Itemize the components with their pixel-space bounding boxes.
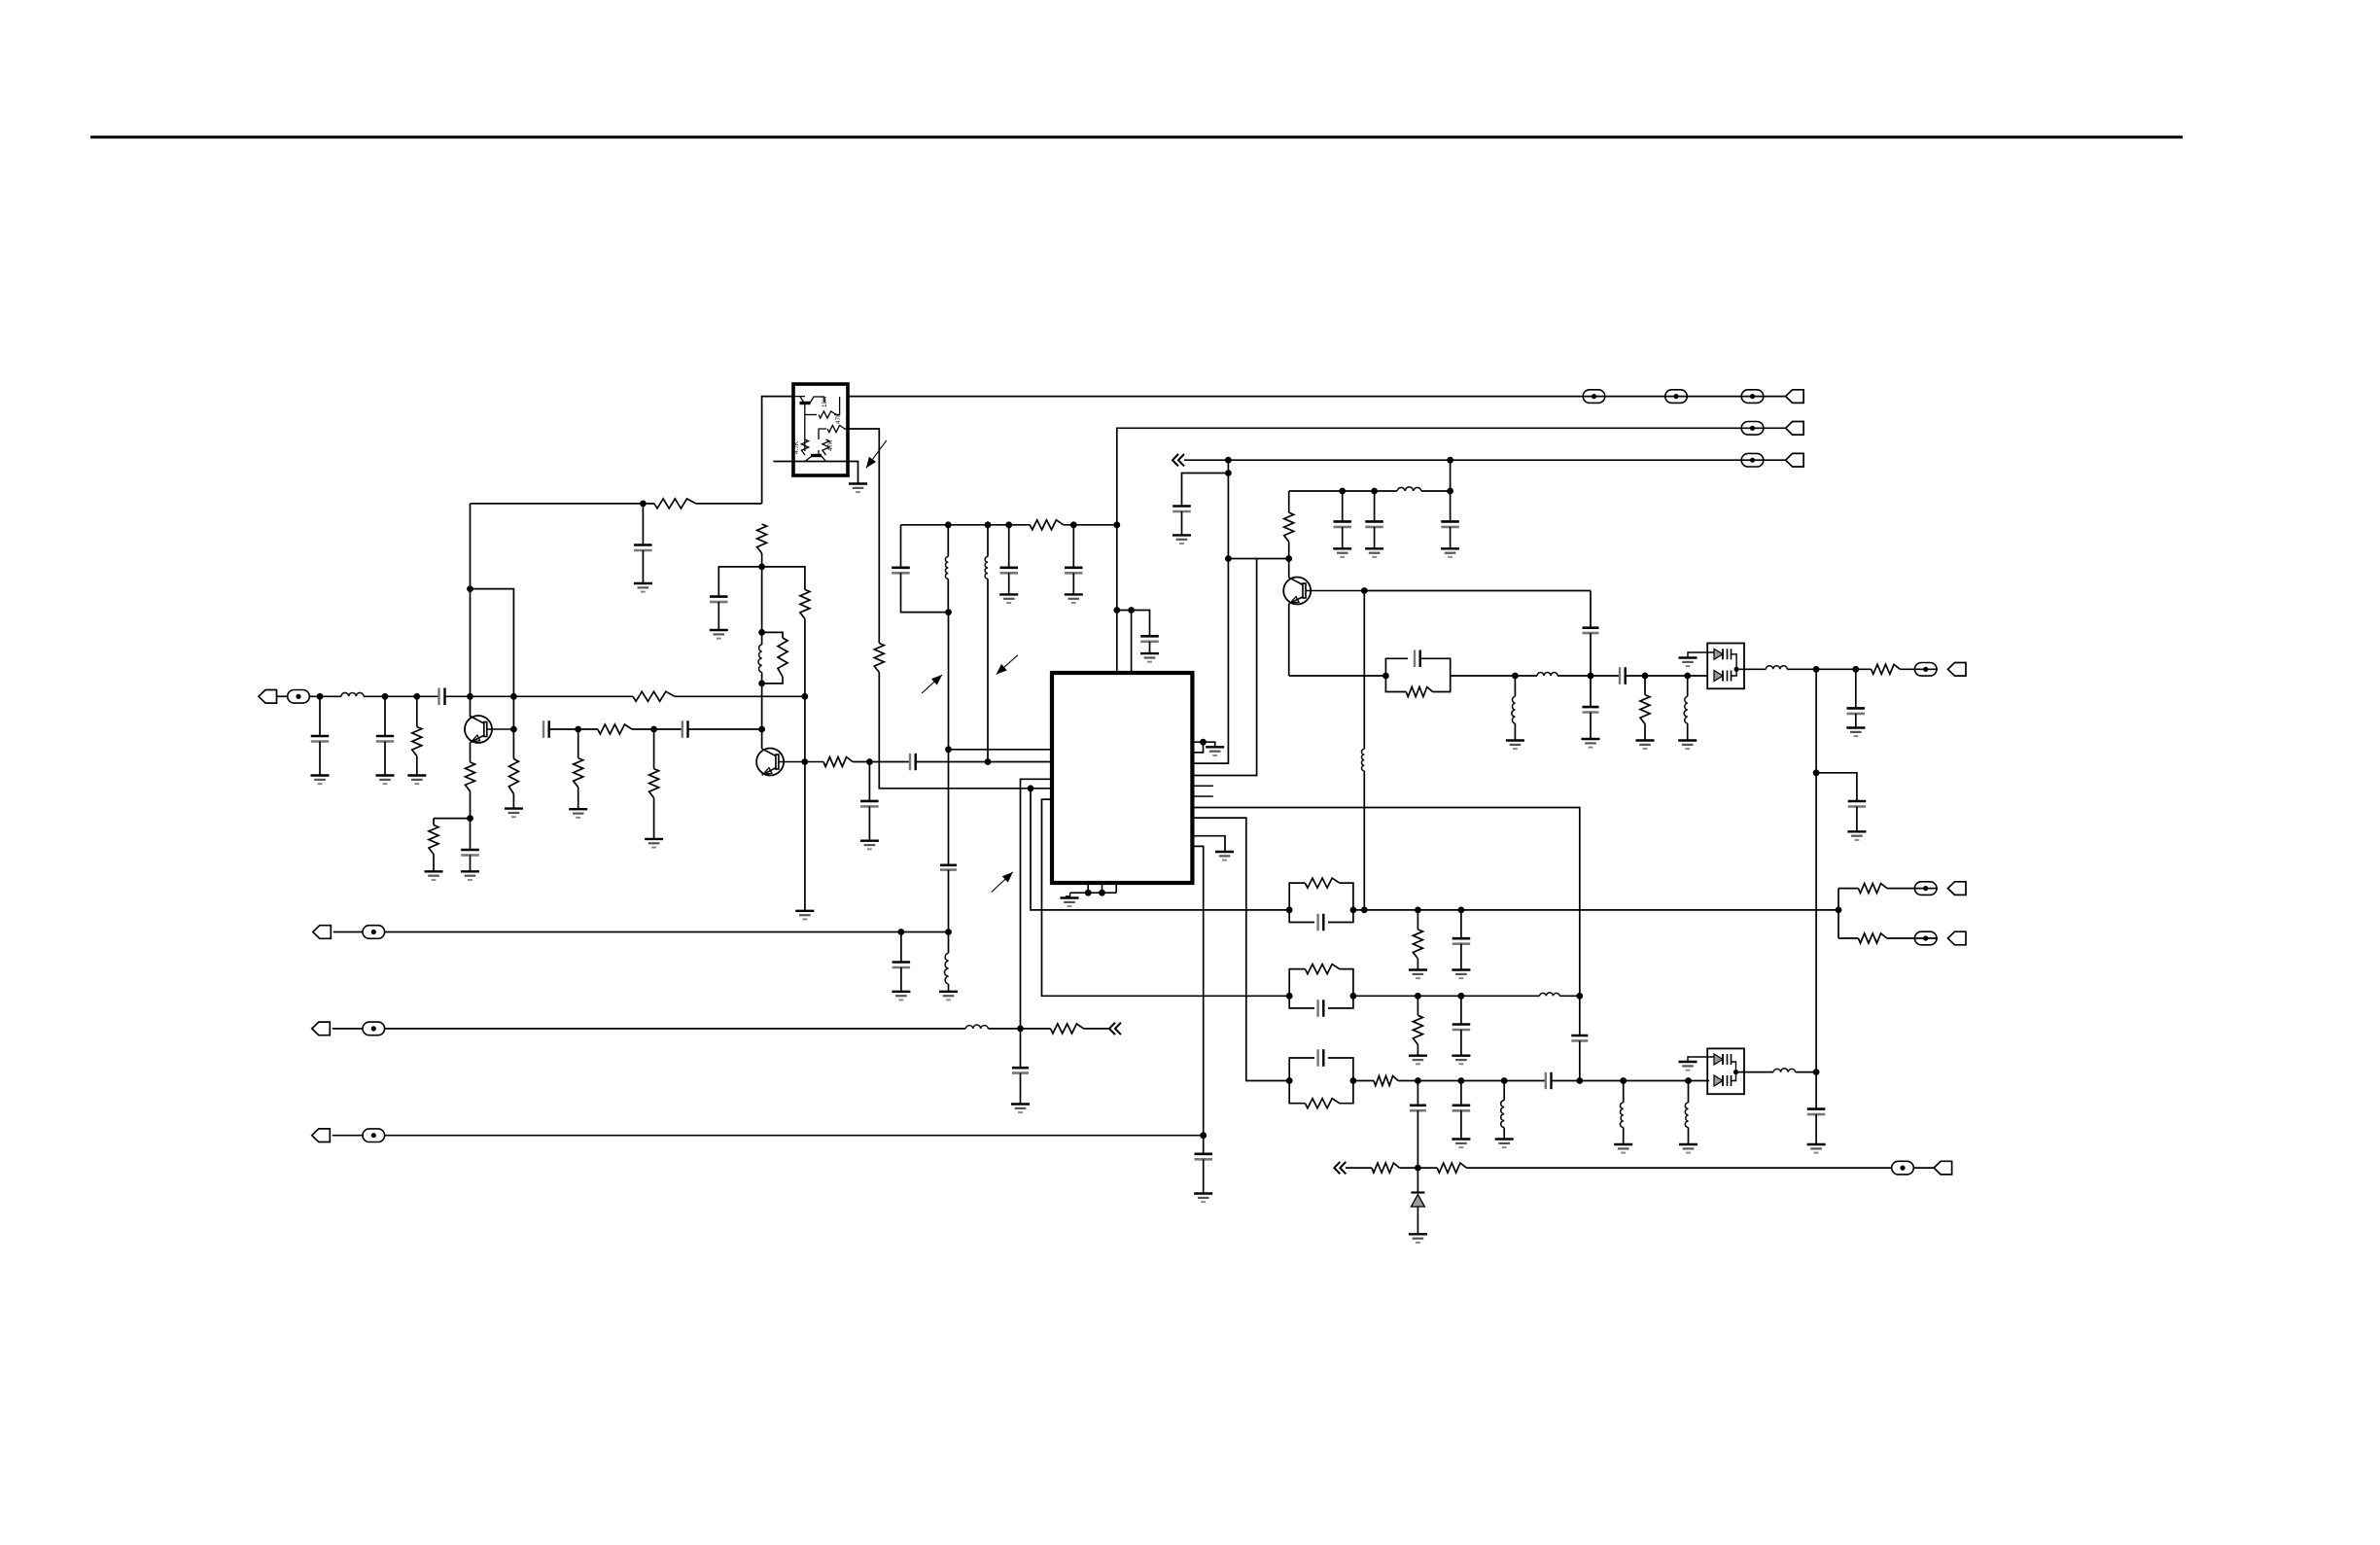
test point TP1	[288, 690, 310, 704]
diode D3 (to ground)	[1411, 1168, 1424, 1234]
wire (row1 feed)	[1031, 789, 1289, 910]
wire	[1450, 527, 1452, 548]
junction	[758, 726, 765, 733]
ground	[860, 841, 879, 850]
test point TP3	[1665, 390, 1688, 404]
wire	[901, 573, 949, 612]
capacitor C25 (series)	[1583, 628, 1599, 633]
junction	[1017, 1026, 1024, 1033]
wire bus	[901, 524, 1031, 526]
label 47K b	[827, 439, 834, 451]
junction	[945, 521, 952, 528]
junction	[1813, 1069, 1820, 1075]
wire	[987, 525, 989, 557]
wire	[804, 618, 806, 910]
junction	[413, 693, 420, 700]
resistor R7	[429, 825, 438, 855]
inductor L5	[945, 953, 949, 984]
capacitor C9 (series)	[682, 720, 688, 738]
junction	[1836, 907, 1842, 914]
junction	[1085, 890, 1092, 896]
junction	[1200, 1132, 1207, 1139]
wire (collector sub-rail)	[1289, 490, 1343, 492]
capacitor C32 (series)	[1571, 1036, 1588, 1040]
wire (IC pin to row3)	[1192, 818, 1289, 1080]
wire (IC pin)	[1192, 846, 1203, 1153]
wire	[653, 798, 655, 839]
wire	[688, 728, 762, 730]
test point TP4	[1741, 390, 1764, 404]
test point TP9	[363, 1129, 385, 1142]
ground	[1582, 739, 1600, 748]
junction	[640, 501, 647, 508]
junction	[1285, 555, 1292, 562]
resistor (module) 4.7K	[801, 439, 808, 455]
junction	[985, 521, 992, 528]
wire	[1787, 668, 1871, 670]
wire	[1796, 1071, 1816, 1073]
junction	[1415, 1165, 1421, 1172]
wire	[1020, 1073, 1022, 1105]
connector J11	[1934, 1161, 1952, 1175]
resistor (module) 10K	[819, 411, 836, 418]
wire	[319, 696, 321, 736]
wire (jog to C5)	[718, 567, 761, 597]
wire	[1644, 676, 1646, 695]
wire	[1460, 1081, 1462, 1106]
inductor L15	[1621, 1103, 1624, 1128]
inductor L13	[1540, 993, 1560, 997]
wire (bus left drop)	[900, 525, 902, 568]
ground	[425, 871, 443, 880]
ground	[1011, 1105, 1030, 1113]
wire	[1451, 675, 1516, 677]
junction	[1339, 488, 1346, 495]
wire	[513, 695, 633, 697]
diode D2b	[1714, 1075, 1732, 1086]
wire	[416, 696, 418, 726]
wire	[1552, 1080, 1710, 1082]
resistor R23	[1413, 1015, 1422, 1044]
wire	[1149, 642, 1151, 653]
junction	[1852, 666, 1859, 673]
junction	[1286, 993, 1293, 1000]
wire	[577, 788, 579, 810]
diode D1b	[1714, 671, 1732, 682]
wire	[1342, 491, 1344, 521]
capacitor C24	[1365, 521, 1383, 527]
junction	[1512, 673, 1519, 680]
inductor L3	[945, 557, 948, 579]
resistor R6 (Q1 emitter)	[466, 762, 475, 791]
junction	[1350, 907, 1357, 914]
junction	[1642, 673, 1649, 680]
capacitor C16 (series)	[940, 865, 957, 870]
capacitor C17	[892, 963, 911, 968]
wire (Q1 emitter)	[470, 743, 472, 762]
wire (bottom tie)	[1070, 892, 1117, 894]
wire (D2 out)	[1736, 1071, 1774, 1073]
wire	[416, 756, 418, 776]
wire	[1815, 1072, 1817, 1109]
resistor R17 (Q3 collector)	[1284, 512, 1294, 542]
diode D2a	[1714, 1054, 1732, 1065]
connector J5	[313, 926, 332, 939]
wire	[1417, 959, 1418, 970]
test point TP2	[1583, 390, 1605, 404]
resistor R13 (Q2 base)	[823, 757, 853, 767]
ground	[1441, 548, 1459, 557]
wire	[577, 729, 579, 758]
wire	[868, 806, 870, 840]
test point TP11	[1914, 882, 1937, 895]
wire	[1374, 491, 1376, 521]
svg-text:47K: 47K	[835, 412, 842, 424]
wire (drop to IC)	[1192, 559, 1256, 776]
wire	[1460, 996, 1462, 1024]
wire (IC pin)	[1192, 741, 1203, 743]
capacitor C3 (series)	[439, 688, 445, 706]
wire	[1342, 527, 1344, 548]
wire (IC pin)	[1192, 836, 1225, 852]
wire	[1182, 474, 1229, 507]
capacitor C12	[860, 801, 879, 807]
resistor R20	[1413, 930, 1422, 959]
junction	[1813, 666, 1820, 673]
ground	[461, 871, 479, 880]
inductor L14	[1501, 1101, 1504, 1128]
junction	[801, 758, 808, 765]
junction	[1113, 521, 1120, 528]
ground	[376, 776, 395, 785]
junction	[758, 629, 765, 636]
ground	[710, 630, 728, 639]
ground	[1333, 548, 1351, 557]
wire	[1072, 525, 1074, 568]
wire	[445, 695, 514, 697]
junction	[1225, 555, 1232, 562]
resistor R3 (bias chain)	[757, 524, 767, 553]
resistor R24	[1374, 1076, 1398, 1086]
wire	[1503, 1128, 1505, 1140]
wire	[433, 855, 435, 872]
label 10K	[822, 396, 828, 407]
ground	[634, 583, 652, 592]
wire	[1887, 937, 1938, 939]
ic U1 (main IC)	[1052, 673, 1192, 883]
wire	[947, 579, 949, 612]
ground	[1679, 658, 1697, 667]
wire	[853, 761, 910, 763]
wire	[1623, 1128, 1625, 1145]
connector J4	[1786, 453, 1804, 467]
junction	[1099, 890, 1105, 896]
wire	[1855, 714, 1857, 728]
resistor (module) 47K a	[827, 425, 845, 432]
capacitor C31	[1452, 1025, 1471, 1031]
wire (Q3 emitter)	[1288, 604, 1290, 676]
wire	[761, 632, 763, 645]
junction	[1813, 769, 1820, 776]
capacitor C23	[1334, 521, 1352, 527]
transistor Q3	[1283, 578, 1311, 605]
wire	[1008, 573, 1010, 594]
chevron (off-page)	[1109, 1023, 1121, 1035]
resistor R2 (feedback)	[654, 499, 696, 509]
junction	[1458, 907, 1465, 914]
wire (IC bottom pins)	[1088, 883, 1116, 893]
capacitor C21	[1195, 1154, 1213, 1160]
ground	[1215, 852, 1234, 860]
connector J7	[312, 1129, 331, 1142]
wire	[1417, 1044, 1418, 1055]
junction	[1501, 1077, 1508, 1084]
wire	[879, 673, 1052, 789]
junction	[1576, 993, 1583, 1000]
wire	[1815, 1114, 1817, 1144]
junction	[467, 693, 473, 700]
capacitor C2 (shunt)	[376, 736, 394, 742]
junction	[1415, 993, 1421, 1000]
ground	[1452, 1056, 1470, 1065]
ground	[1206, 747, 1224, 755]
junction	[945, 746, 952, 753]
capacitor C7 (emitter bypass)	[461, 850, 479, 856]
chevron (off-page) left	[1172, 454, 1184, 466]
wire	[1623, 1081, 1625, 1104]
ground	[1061, 898, 1079, 907]
ground	[1679, 1144, 1697, 1153]
capacitor C22	[1441, 521, 1459, 527]
wire	[1460, 1030, 1462, 1056]
wire	[632, 728, 682, 730]
capacitor C20	[1172, 507, 1191, 512]
wire	[1688, 1081, 1690, 1104]
capacitor C1 (shunt)	[311, 736, 329, 742]
wire	[471, 589, 514, 759]
ground	[1365, 548, 1383, 557]
wire rail 2	[1117, 428, 1786, 525]
wire	[1289, 675, 1386, 677]
wire (to bias module)	[762, 397, 793, 504]
wire	[1559, 995, 1580, 997]
wire	[1626, 675, 1708, 677]
inductor L2 (parallel)	[758, 645, 762, 673]
wire	[384, 696, 386, 736]
wire	[948, 613, 950, 865]
resistor (module) 47K b	[822, 439, 829, 455]
resistor R15 (bus)	[1030, 520, 1064, 530]
junction	[1350, 993, 1357, 1000]
junction	[1200, 739, 1207, 746]
junction	[382, 693, 389, 700]
wire rail 3	[1184, 459, 1786, 461]
capacitor C15	[1065, 568, 1083, 574]
wire (IC top pin 1)	[1116, 525, 1118, 673]
wire	[1460, 944, 1462, 970]
capacitor C27 (series)	[1620, 667, 1626, 685]
wire	[1008, 525, 1010, 568]
wire	[1066, 893, 1070, 896]
resistor R16	[1051, 1024, 1084, 1034]
wire	[916, 761, 1052, 763]
wire (IC pin to row2 col)	[1192, 808, 1579, 997]
diode D1a	[1714, 649, 1732, 659]
wire	[1417, 1081, 1418, 1106]
junction node A	[317, 693, 324, 700]
junction	[1128, 607, 1135, 614]
resistor R5 (on input rail)	[633, 691, 675, 701]
wire (D1 internal)	[1732, 654, 1737, 676]
wire	[900, 967, 902, 992]
test point TP13	[1892, 1161, 1914, 1175]
wire (row B)	[1838, 937, 1858, 939]
wire	[1181, 511, 1183, 535]
resistor R14	[874, 644, 884, 673]
ground	[569, 809, 587, 818]
junction	[1734, 667, 1739, 672]
wire	[1514, 723, 1516, 741]
wire	[900, 932, 902, 963]
capacitor C13	[892, 568, 910, 574]
capacitor C8 (series)	[543, 720, 549, 738]
junction	[1286, 1077, 1293, 1084]
capacitor C36	[1807, 1109, 1826, 1115]
ground	[849, 484, 867, 493]
wire	[653, 729, 655, 769]
wire	[642, 504, 644, 545]
capacitor C29	[1848, 801, 1867, 807]
wire (module internal)	[805, 397, 840, 415]
resistor R10	[574, 758, 583, 788]
wire	[1887, 888, 1938, 890]
wire	[1353, 909, 1838, 911]
inductor L12	[1766, 666, 1787, 670]
wire	[364, 695, 439, 697]
junction	[1576, 1077, 1583, 1084]
wire	[696, 503, 762, 505]
inductor L16	[1685, 1103, 1688, 1128]
sub-circuit U2 (bias module box)	[793, 384, 848, 475]
transistor Q1	[465, 716, 492, 743]
wire	[1417, 996, 1418, 1015]
junction	[1070, 521, 1077, 528]
junction	[1733, 1070, 1738, 1074]
resistor R8 (base bias)	[508, 759, 518, 794]
capacitor C35	[1452, 1106, 1471, 1111]
transistor Q2	[756, 749, 784, 776]
wire (Q3 base lead)	[1306, 590, 1364, 592]
wire	[948, 870, 950, 954]
junction	[1415, 1077, 1421, 1084]
wire	[512, 794, 514, 809]
wire	[1900, 668, 1938, 670]
wire (IC pin to row2)	[1042, 799, 1290, 996]
wire	[1072, 573, 1074, 594]
wire (D1 out)	[1736, 668, 1766, 670]
wire	[1288, 491, 1290, 512]
wire	[947, 525, 949, 557]
wire	[1579, 1040, 1581, 1080]
transistor Q5 (in module)	[805, 450, 826, 462]
wire (D1 gnd stub)	[1688, 652, 1714, 658]
ground	[645, 839, 663, 848]
wire (IC top pin 2)	[1131, 611, 1133, 674]
ground	[1846, 728, 1865, 737]
wire	[385, 1028, 966, 1030]
resistor R1 (shunt)	[412, 727, 422, 756]
connector J6	[312, 1022, 331, 1036]
resistor R4	[800, 589, 810, 618]
wire	[987, 579, 989, 761]
tuning arrow 1	[922, 675, 942, 693]
wire	[1353, 995, 1540, 997]
ground	[999, 594, 1018, 603]
wire	[470, 791, 472, 850]
wire	[1687, 723, 1689, 741]
wire	[761, 672, 763, 749]
resistor R12 (parallel w/ L2)	[762, 632, 787, 684]
ground	[1409, 1056, 1427, 1065]
junction	[1225, 457, 1232, 464]
svg-text:4.7K: 4.7K	[793, 440, 800, 454]
inductor L4	[985, 557, 988, 579]
ground	[505, 809, 523, 818]
wire	[1466, 1167, 1891, 1169]
ground	[1807, 1144, 1826, 1153]
wire (Q1 base lead)	[487, 728, 513, 730]
wire (base line)	[1364, 590, 1591, 592]
test point TP6	[1741, 453, 1764, 467]
junction	[1588, 673, 1594, 680]
wire (row A)	[1838, 888, 1858, 890]
capacitor C26	[1583, 707, 1599, 712]
junction	[1620, 1077, 1627, 1084]
resistor R9 (interstage)	[598, 724, 632, 734]
capacitor C14	[1000, 568, 1019, 574]
capacitor C4	[634, 545, 652, 551]
wire	[988, 1028, 1050, 1030]
junction	[1685, 1077, 1692, 1084]
wire	[1855, 669, 1857, 708]
junction	[801, 693, 808, 700]
capacitor C19 (series)	[1012, 1068, 1029, 1072]
wire	[868, 762, 870, 801]
resistor R11	[649, 769, 659, 798]
parallel RC box row2	[1289, 965, 1353, 1017]
test point TP7	[363, 926, 385, 939]
ground	[311, 776, 330, 785]
wire	[319, 742, 321, 776]
wire	[1688, 1128, 1690, 1145]
transistor Q4 (in module)	[794, 397, 825, 451]
resistor R22	[1858, 933, 1887, 943]
junction	[467, 585, 473, 592]
wire	[1204, 742, 1215, 747]
resistor R18	[1640, 695, 1650, 724]
wire	[1816, 773, 1857, 801]
svg-text:10K: 10K	[822, 396, 828, 407]
wire (Q1 collector feed)	[470, 504, 472, 718]
wire	[1590, 676, 1592, 707]
ground	[1140, 653, 1159, 662]
resistor R21	[1858, 884, 1887, 894]
junction	[467, 815, 473, 822]
ground	[795, 911, 814, 920]
junction	[1382, 673, 1389, 680]
junction	[945, 929, 952, 935]
wire	[1644, 724, 1646, 741]
